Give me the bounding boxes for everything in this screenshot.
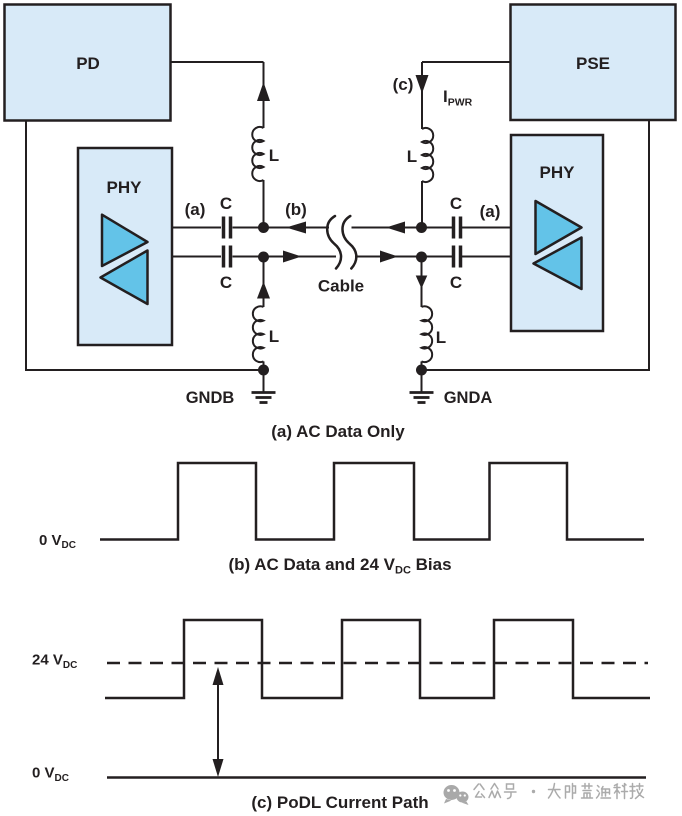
inductor L3 bottom-left bbox=[253, 306, 279, 362]
wire PSE bottom rail bbox=[422, 120, 650, 370]
capacitor C4 bottom-right bbox=[450, 246, 462, 293]
arrow left on top line (right pair) bbox=[386, 222, 405, 234]
inductor L2 top-right bbox=[407, 128, 433, 182]
arrow up into node B2 bbox=[257, 282, 270, 299]
waveform (c) square wave bbox=[105, 620, 650, 698]
arrow right on bottom line (left pair) bbox=[283, 251, 302, 263]
node junction dots bbox=[258, 222, 427, 376]
capacitor C3 top-right bbox=[450, 194, 462, 239]
double arrow 24V span bbox=[213, 667, 224, 777]
svg-text:L: L bbox=[436, 328, 446, 347]
svg-text:C: C bbox=[450, 194, 462, 213]
wire node A2 down to L4 bbox=[421, 257, 423, 307]
watermark wechat icon bbox=[444, 785, 469, 805]
wire L3 to GNDB node bbox=[263, 361, 265, 370]
block PSE bbox=[511, 5, 676, 121]
svg-text:PHY: PHY bbox=[540, 163, 576, 182]
arrow up on PD branch bbox=[257, 82, 270, 101]
svg-text:L: L bbox=[269, 327, 279, 346]
dashed 24V level line bbox=[107, 662, 648, 665]
svg-text:C: C bbox=[220, 194, 232, 213]
svg-text:(b): (b) bbox=[285, 200, 307, 219]
capacitor C2 bottom-left bbox=[220, 246, 232, 293]
buffer triangle left PHY (right-pointing) bbox=[102, 215, 148, 266]
inductor L4 bottom-right bbox=[422, 306, 447, 362]
buffer triangle right PHY (right-pointing) bbox=[536, 201, 582, 254]
wire L1 to node B1 bbox=[263, 180, 265, 228]
svg-text:PHY: PHY bbox=[107, 178, 143, 197]
watermark text 公众号·大印蓝海科技 (stylized strokes) bbox=[474, 784, 644, 799]
wire PD bottom rail bbox=[26, 120, 264, 370]
wire PD right to top-left branch bbox=[170, 61, 264, 63]
svg-text:(a) AC Data Only: (a) AC Data Only bbox=[271, 422, 405, 441]
inductor L1 top-left bbox=[252, 127, 279, 181]
arrow right on bottom line (right pair) bbox=[380, 251, 398, 263]
wire L2 to node A1 bbox=[421, 181, 423, 228]
wire top-left vertical upper bbox=[263, 62, 265, 128]
svg-text:(a): (a) bbox=[480, 202, 501, 221]
block PHY left U1 bbox=[78, 148, 172, 345]
arrow down (c) current IPWR bbox=[416, 75, 429, 94]
svg-text:GNDB: GNDB bbox=[186, 389, 235, 407]
buffer triangle right PHY (left-pointing) bbox=[534, 238, 582, 290]
svg-text:(c): (c) bbox=[393, 75, 414, 94]
ground GNDA bbox=[410, 370, 434, 403]
buffer triangle left PHY (left-pointing) bbox=[101, 251, 148, 305]
block PD bbox=[5, 5, 171, 121]
svg-text:(b) AC Data and 24 VDC Bias: (b) AC Data and 24 VDC Bias bbox=[228, 555, 451, 577]
svg-text:L: L bbox=[407, 147, 417, 166]
cable break curves bbox=[327, 216, 356, 269]
svg-text:(c) PoDL Current Path: (c) PoDL Current Path bbox=[251, 793, 428, 812]
svg-text:PD: PD bbox=[76, 54, 100, 73]
svg-text:Cable: Cable bbox=[318, 277, 364, 296]
0V baseline (c) bbox=[107, 776, 646, 779]
svg-text:L: L bbox=[269, 146, 279, 165]
svg-text:(a): (a) bbox=[185, 200, 206, 219]
wire top-right vertical upper bbox=[421, 62, 423, 129]
ground GNDB bbox=[252, 370, 276, 403]
wire top data line bbox=[172, 227, 511, 229]
wire L4 to GNDA node bbox=[421, 361, 423, 370]
arrow left on top line (left pair) bbox=[286, 222, 306, 234]
wire PSE left to top-right branch bbox=[422, 61, 511, 63]
svg-text:GNDA: GNDA bbox=[444, 389, 493, 407]
wire bottom data line bbox=[172, 256, 511, 258]
svg-text:C: C bbox=[450, 273, 462, 292]
capacitor C1 top-left bbox=[220, 194, 232, 239]
block PHY right U2 bbox=[511, 135, 603, 331]
svg-text:C: C bbox=[220, 273, 232, 292]
waveform (b) square wave bbox=[100, 463, 644, 540]
wire node B2 down to L3 bbox=[263, 257, 265, 307]
svg-text:PSE: PSE bbox=[576, 54, 610, 73]
arrow down toward L4 bbox=[416, 276, 428, 289]
